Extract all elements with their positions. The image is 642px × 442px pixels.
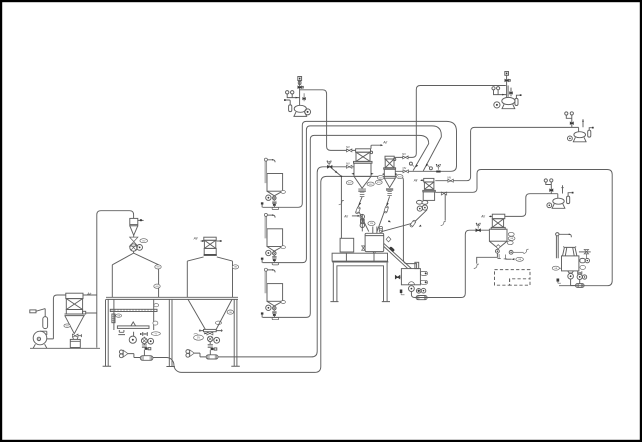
svg-text:NV: NV (402, 152, 406, 156)
svg-text:SV: SV (197, 336, 201, 339)
svg-text:GB: GB (156, 267, 160, 269)
svg-text:NV: NV (403, 166, 407, 170)
svg-text:GB: GB (229, 312, 233, 314)
svg-text:NV: NV (346, 162, 350, 166)
svg-text:GB: GB (155, 286, 159, 288)
svg-text:Air: Air (193, 237, 199, 241)
svg-text:GB: GB (234, 267, 238, 269)
svg-text:Air: Air (382, 140, 388, 144)
svg-text:SM: SM (370, 223, 373, 225)
svg-text:GD: GD (142, 240, 146, 242)
svg-text:GB: GB (66, 325, 70, 327)
svg-text:NV: NV (346, 145, 350, 149)
svg-text:Air: Air (86, 292, 92, 296)
svg-text:NV: NV (448, 176, 452, 180)
